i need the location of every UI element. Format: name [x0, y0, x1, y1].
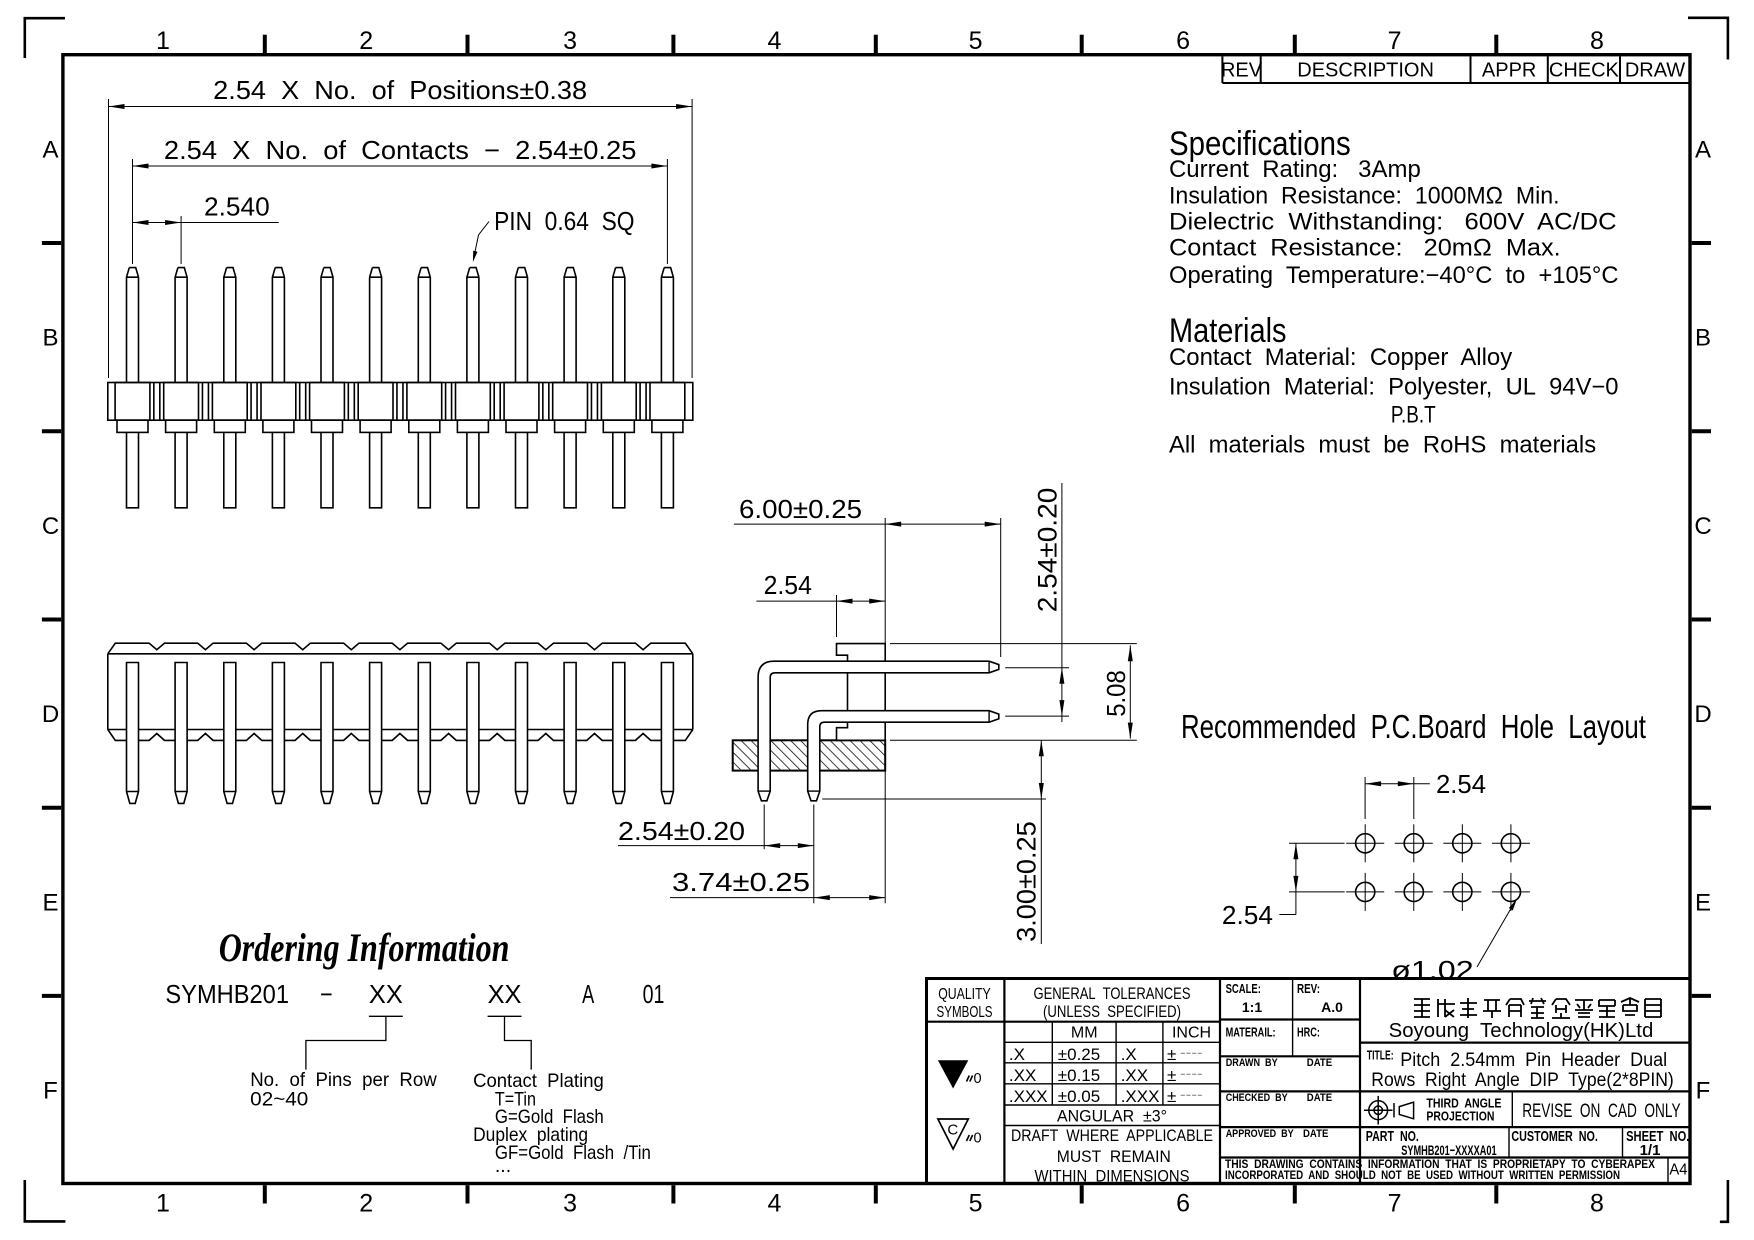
svg-text:DATE: DATE — [1303, 1128, 1328, 1140]
svg-text:6: 6 — [1176, 1190, 1190, 1218]
hole at 1511,843 — [1501, 834, 1520, 853]
svg-text:.XX: .XX — [1121, 1066, 1148, 1085]
top view pin 7 — [418, 268, 430, 383]
svg-text:4: 4 — [767, 1190, 781, 1218]
svg-text:All materials must be RoHS: All materials must be RoHS materials — [1169, 432, 1596, 459]
PCB board section (hatched) — [733, 740, 886, 770]
svg-text:5: 5 — [969, 1190, 983, 1218]
svg-text:F: F — [43, 1078, 58, 1105]
svg-text:6: 6 — [1176, 27, 1190, 55]
svg-text:Recommended P.C.Board Hole: Recommended P.C.Board Hole Layout — [1181, 708, 1646, 745]
svg-text:Contact Plating: Contact Plating — [473, 1070, 604, 1092]
svg-text:GENERAL TOLERANCES: GENERAL TOLERANCES — [1034, 985, 1191, 1003]
svg-text:C: C — [42, 513, 59, 540]
hole at 1414,843 — [1404, 834, 1423, 853]
svg-text:REV:: REV: — [1297, 982, 1320, 996]
svg-text:02~40: 02~40 — [250, 1089, 308, 1111]
svg-text:HRC:: HRC: — [1297, 1026, 1320, 1040]
svg-text:.XXX: .XXX — [1009, 1087, 1048, 1106]
hole at 1365,892 — [1356, 882, 1375, 901]
bottom view pin 8 — [467, 663, 479, 804]
revision table — [1222, 56, 1690, 83]
bottom view pin 5 — [321, 663, 333, 804]
svg-text:3.74±0.25: 3.74±0.25 — [672, 867, 810, 897]
svg-text:SCALE:: SCALE: — [1226, 982, 1261, 996]
svg-text:P.B.T: P.B.T — [1391, 402, 1436, 429]
svg-text:INCH: INCH — [1172, 1025, 1211, 1042]
bottom view pin 3 — [224, 663, 236, 804]
svg-text:QUALITY: QUALITY — [938, 986, 991, 1003]
general tolerances table — [1009, 985, 1213, 1185]
svg-text:2.54±0.20: 2.54±0.20 — [1033, 488, 1063, 613]
svg-text:ø1.02: ø1.02 — [1391, 955, 1474, 985]
pin tip shoulders — [758, 661, 989, 791]
scale/rev cells — [1226, 982, 1344, 1140]
svg-text:REV: REV — [1221, 60, 1263, 82]
svg-text:A: A — [42, 136, 58, 163]
dimension 6.00+/-0.25 (pin protrusion) — [734, 494, 1001, 903]
svg-text:A: A — [582, 979, 595, 1009]
top view pin 10 — [564, 268, 576, 383]
bottom view pin 12 — [661, 663, 673, 804]
company name (CJK strokes) — [1414, 998, 1661, 1018]
hole layout dimension 2.54 vertical — [1279, 843, 1344, 914]
svg-text:B: B — [42, 325, 58, 352]
top view pin 3 — [224, 268, 236, 383]
top view: straight pin header, 12 pins — [108, 268, 693, 508]
svg-text:7: 7 — [1388, 1190, 1402, 1218]
side view housing section — [837, 644, 886, 741]
top view pin 11 — [613, 268, 625, 383]
svg-text:±: ± — [1167, 1087, 1176, 1106]
svg-text:3.00±0.25: 3.00±0.25 — [1012, 821, 1042, 942]
svg-text:SYMHB201−XXXXA01: SYMHB201−XXXXA01 — [1401, 1142, 1497, 1158]
svg-text:1: 1 — [156, 27, 170, 55]
svg-text:MUST REMAIN: MUST REMAIN — [1057, 1147, 1171, 1166]
svg-text:A4: A4 — [1669, 1162, 1687, 1179]
svg-text:4: 4 — [767, 27, 781, 55]
svg-text:APPROVED BY: APPROVED BY — [1226, 1128, 1295, 1140]
top view pin 6 — [370, 268, 382, 383]
bottom view pin 9 — [516, 663, 528, 804]
bottom view pin 10 — [564, 663, 576, 804]
svg-text:ANGULAR ±3°: ANGULAR ±3° — [1057, 1107, 1167, 1126]
svg-text:2.54 X No. of Contacts −: 2.54 X No. of Contacts − 2.54±0.25 — [164, 135, 637, 165]
svg-text:±0.15: ±0.15 — [1058, 1066, 1100, 1085]
svg-text:−: − — [320, 979, 333, 1009]
dimension: 2.540 pitch — [133, 216, 279, 264]
specifications text block — [1169, 125, 1619, 459]
svg-text:Pitch 2.54mm Pin Header Du: Pitch 2.54mm Pin Header Dual — [1400, 1050, 1667, 1071]
dimension 3.74+/-0.25 — [670, 867, 885, 900]
hole layout dimension 2.54 horizontal — [1365, 777, 1430, 819]
svg-text:XX: XX — [488, 979, 522, 1009]
svg-text:A.0: A.0 — [1321, 999, 1343, 1015]
svg-text:Soyoung Technology(HK)Ltd: Soyoung Technology(HK)Ltd — [1389, 1020, 1654, 1042]
hole at 1462,843 — [1453, 834, 1472, 853]
dimension 3.00+/-0.25 (pin length below board) — [822, 740, 1046, 944]
dimension 2.54 (housing thickness) — [756, 570, 885, 637]
svg-text:B: B — [1695, 325, 1711, 352]
svg-text:Contact Material: Copper Al: Contact Material: Copper Alloy — [1169, 344, 1512, 371]
svg-text:E: E — [1695, 889, 1711, 916]
dimension: 2.54 x No. of Positions +/-0.38 — [109, 99, 693, 378]
dimension: 2.54 x No. of Contacts - 2.54+/-0.25 — [133, 159, 668, 264]
svg-text:----: ---- — [1180, 1043, 1203, 1062]
svg-text:2.540: 2.540 — [204, 192, 270, 222]
part number breakdown — [165, 979, 664, 1009]
svg-text:Insulation Material: Polyest: Insulation Material: Polyester, UL 94V−0 — [1169, 374, 1619, 401]
svg-text:1:1: 1:1 — [1242, 999, 1262, 1015]
hole at 1511,892 — [1501, 882, 1520, 901]
svg-text:1/1: 1/1 — [1640, 1142, 1661, 1159]
bottom view: header housing with notches, pins downward — [108, 643, 693, 740]
bottom view pin 7 — [418, 663, 430, 804]
svg-text:2.54: 2.54 — [1436, 769, 1486, 799]
quality symbols cell — [937, 986, 993, 1021]
svg-text:Ordering Information: Ordering Information — [219, 925, 510, 970]
svg-text:CHECK: CHECK — [1549, 60, 1620, 82]
svg-text:Operating Temperature:−40°C: Operating Temperature:−40°C to +105°C — [1169, 262, 1619, 289]
svg-text:8: 8 — [1590, 27, 1604, 55]
svg-text:.XXX: .XXX — [1121, 1087, 1160, 1106]
svg-text:APPR: APPR — [1482, 60, 1536, 82]
svg-text:THIRD ANGLE: THIRD ANGLE — [1426, 1097, 1501, 1111]
bottom view pin 1 — [127, 663, 139, 804]
svg-text:WITHIN DIMENSIONS: WITHIN DIMENSIONS — [1035, 1166, 1190, 1185]
svg-text:DRAW: DRAW — [1625, 60, 1685, 82]
svg-text:Contact Resistance: 20mΩ M: Contact Resistance: 20mΩ Max. — [1169, 235, 1561, 262]
svg-text:GF=Gold Flash /Tin: GF=Gold Flash /Tin — [495, 1142, 651, 1164]
bottom view pin 2 — [175, 663, 187, 804]
svg-text:(UNLESS SPECIFIED): (UNLESS SPECIFIED) — [1043, 1003, 1181, 1021]
svg-text:2.54 X No. of Positions±0.: 2.54 X No. of Positions±0.38 — [213, 75, 587, 105]
svg-text:D: D — [42, 701, 59, 728]
svg-text:8: 8 — [1590, 1190, 1604, 1218]
svg-text:C: C — [947, 1122, 958, 1139]
svg-text:0: 0 — [974, 1071, 982, 1087]
svg-text:TITLE:: TITLE: — [1367, 1049, 1394, 1063]
svg-text:MATERAIL:: MATERAIL: — [1226, 1026, 1276, 1040]
top view pin 4 — [272, 268, 284, 383]
svg-text:5: 5 — [969, 27, 983, 55]
svg-text:.X: .X — [1121, 1045, 1137, 1064]
svg-text:2.54: 2.54 — [1222, 900, 1273, 930]
top view pin 2 — [175, 268, 187, 383]
svg-text:INCORPORATED AND SHOULD NOT: INCORPORATED AND SHOULD NOT BE USED WITH… — [1225, 1170, 1620, 1182]
svg-text:E: E — [42, 889, 58, 916]
svg-text:----: ---- — [1180, 1064, 1203, 1083]
bottom view pin 11 — [613, 663, 625, 804]
top view pin 5 — [321, 268, 333, 383]
svg-text:±: ± — [1167, 1066, 1176, 1085]
svg-text:XX: XX — [369, 979, 403, 1009]
side view lower pin (bent) — [808, 711, 999, 801]
svg-text:DATE: DATE — [1307, 1092, 1332, 1104]
svg-text:1: 1 — [156, 1190, 170, 1218]
svg-text:2: 2 — [359, 27, 373, 55]
svg-text:SYMBOLS: SYMBOLS — [937, 1004, 993, 1021]
svg-text:±0.05: ±0.05 — [1058, 1087, 1100, 1106]
top view pin 9 — [516, 268, 528, 383]
svg-text:CHECKED BY: CHECKED BY — [1226, 1092, 1289, 1104]
svg-text:C: C — [1694, 513, 1711, 540]
svg-text:±0.25: ±0.25 — [1058, 1045, 1100, 1064]
svg-text:DATE: DATE — [1307, 1057, 1332, 1069]
top view pin 1 — [127, 268, 139, 383]
bottom view pin 4 — [272, 663, 284, 804]
svg-text:A: A — [1695, 136, 1711, 163]
svg-text:3: 3 — [563, 1190, 577, 1218]
svg-text:DRAFT WHERE APPLICABLE: DRAFT WHERE APPLICABLE — [1011, 1126, 1213, 1145]
leader: PIN 0.64 SQ — [474, 222, 490, 260]
svg-text:D: D — [1694, 701, 1711, 728]
svg-text:F: F — [1696, 1078, 1711, 1105]
top view pin 8 — [467, 268, 479, 383]
svg-text:...: ... — [495, 1155, 511, 1177]
bottom view pin 6 — [370, 663, 382, 804]
title block — [927, 979, 1691, 1184]
svg-text:DRAWN BY: DRAWN BY — [1226, 1057, 1279, 1069]
hole diameter leader 1.02 — [1477, 902, 1515, 968]
svg-text:CUSTOMER NO.: CUSTOMER NO. — [1511, 1128, 1598, 1145]
hole at 1462,892 — [1453, 882, 1472, 901]
svg-text:DESCRIPTION: DESCRIPTION — [1297, 60, 1434, 82]
quality symbol triangles — [938, 1060, 968, 1088]
svg-text:Rows Right Angle DIP Type(: Rows Right Angle DIP Type(2*8PIN) — [1371, 1070, 1674, 1091]
svg-text:7: 7 — [1388, 27, 1402, 55]
svg-text:REVISE ON CAD ONLY: REVISE ON CAD ONLY — [1522, 1101, 1681, 1122]
svg-text:5.08: 5.08 — [1101, 670, 1131, 717]
svg-text:6.00±0.25: 6.00±0.25 — [739, 494, 862, 524]
svg-text:Insulation Resistance: 1000M: Insulation Resistance: 1000MΩ Min. — [1169, 182, 1560, 209]
svg-text:2.54±0.20: 2.54±0.20 — [618, 816, 745, 846]
svg-text:Dielectric Withstanding: 60: Dielectric Withstanding: 600V AC/DC — [1169, 208, 1617, 235]
side view upper pin (bent) — [758, 661, 999, 801]
svg-text:3: 3 — [563, 27, 577, 55]
svg-text:Current Rating: 3Amp: Current Rating: 3Amp — [1169, 156, 1421, 183]
svg-text:----: ---- — [1180, 1085, 1203, 1104]
svg-text:SYMHB201: SYMHB201 — [165, 979, 289, 1009]
svg-text:MM: MM — [1071, 1025, 1098, 1042]
svg-text:±: ± — [1167, 1045, 1176, 1064]
dimension 5.08 (housing height) — [890, 644, 1137, 741]
svg-text:PROJECTION: PROJECTION — [1426, 1109, 1494, 1123]
svg-text:2.54: 2.54 — [764, 570, 812, 600]
svg-text:01: 01 — [643, 979, 665, 1009]
svg-text:.XX: .XX — [1009, 1066, 1036, 1085]
dimension 2.54+/-0.20 (leg spacing, bottom) — [618, 805, 814, 904]
svg-text:0: 0 — [974, 1131, 982, 1147]
svg-text:PIN 0.64 SQ: PIN 0.64 SQ — [494, 206, 634, 236]
hole at 1365,843 — [1356, 834, 1375, 853]
hole at 1414,892 — [1404, 882, 1423, 901]
svg-text:2: 2 — [359, 1190, 373, 1218]
svg-text:.X: .X — [1009, 1045, 1025, 1064]
third angle projection symbol — [1364, 1096, 1414, 1125]
dimension 2.54+/-0.20 (row spacing, right side) — [1005, 483, 1069, 722]
top view pin 12 — [661, 268, 673, 383]
